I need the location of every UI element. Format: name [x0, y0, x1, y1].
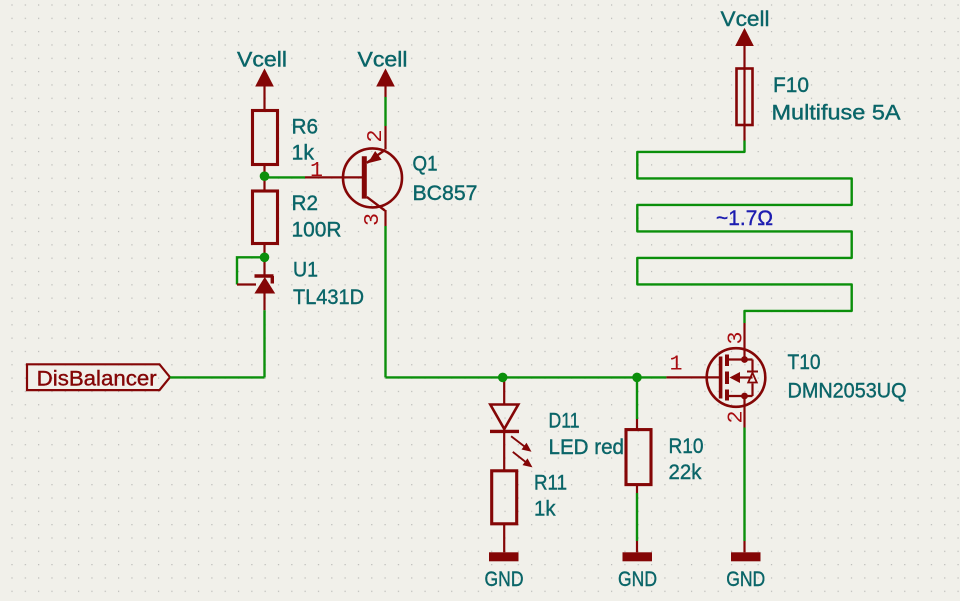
svg-text:3: 3 [725, 332, 749, 345]
ground GND (under R11) [485, 552, 524, 591]
transistor Q1 BC857 [343, 126, 478, 226]
hierarchical label DisBalancer [27, 364, 170, 390]
svg-text:Vcell: Vcell [358, 48, 408, 72]
svg-text:1: 1 [310, 159, 323, 183]
power symbol Vcell (top right) [721, 7, 770, 69]
svg-text:22k: 22k [669, 460, 702, 484]
svg-text:Vcell: Vcell [237, 48, 287, 72]
pin 1 of Q1 (base pin line) [305, 176, 362, 178]
wire ref loop (junction to U1 ref pin) [237, 257, 265, 284]
wire meander (shunt trace) [637, 141, 851, 324]
svg-text:100R: 100R [292, 217, 342, 241]
svg-text:~1.7Ω: ~1.7Ω [716, 206, 773, 230]
LED D11 [490, 377, 624, 470]
power symbol Vcell (left, above R6) [237, 48, 287, 98]
svg-text:F10: F10 [773, 73, 809, 97]
junction node (R6/R2/Q1 base) [260, 171, 270, 181]
resistor R6 [253, 111, 319, 176]
svg-text:GND: GND [485, 567, 524, 591]
svg-text:1: 1 [670, 353, 683, 377]
transistor T10 DMN2053UQ (MOSFET) [666, 323, 906, 428]
svg-text:DisBalancer: DisBalancer [37, 367, 157, 391]
svg-text:2: 2 [725, 411, 749, 424]
svg-text:1k: 1k [534, 497, 556, 521]
fuse F10 [737, 69, 902, 141]
svg-text:2: 2 [364, 130, 388, 143]
svg-text:Multifuse 5A: Multifuse 5A [772, 100, 902, 124]
junction node (R2/U1 ref) [260, 252, 270, 262]
pin ref of U1 [237, 283, 256, 285]
wire main horizontal net [386, 376, 667, 378]
ground GND (under R10) [618, 541, 657, 591]
wire junction to Q1 base pin [265, 176, 306, 178]
wire T10 source to GND [743, 428, 745, 542]
svg-text:GND: GND [726, 567, 765, 591]
wire U1 anode down [263, 310, 265, 377]
power symbol Vcell (above Q1) [358, 48, 408, 98]
svg-text:LED red: LED red [549, 435, 625, 459]
svg-text:GND: GND [618, 567, 657, 591]
wire DisBalancer to U1 anode [170, 376, 265, 378]
wire R10 to GND [636, 493, 638, 541]
resistor R2 [253, 176, 342, 257]
svg-text:3: 3 [361, 213, 385, 226]
svg-text:Vcell: Vcell [721, 7, 770, 31]
junction node (D11 branch) [498, 373, 508, 383]
shunt reference U1 TL431D [255, 257, 365, 310]
wire Vcell to Q1 emitter [384, 97, 386, 126]
svg-text:BC857: BC857 [413, 181, 478, 205]
resistor R11 [492, 471, 567, 553]
svg-text:D11: D11 [549, 408, 580, 432]
svg-text:U1: U1 [293, 258, 318, 282]
wire Vcell to R6 [263, 97, 265, 111]
junction node (R10 branch) [632, 373, 642, 383]
svg-text:T10: T10 [788, 350, 821, 374]
resistor R10 [626, 419, 704, 493]
svg-text:R10: R10 [669, 434, 704, 458]
svg-text:Q1: Q1 [413, 152, 438, 176]
svg-text:R6: R6 [292, 114, 319, 138]
wire R10 branch [636, 377, 638, 419]
ground GND (under T10) [726, 541, 765, 591]
svg-text:R11: R11 [534, 471, 567, 495]
svg-text:TL431D: TL431D [293, 285, 364, 309]
wire Q1 collector down to main net [384, 226, 386, 377]
svg-text:DMN2053UQ: DMN2053UQ [788, 379, 907, 403]
svg-text:R2: R2 [292, 191, 319, 215]
